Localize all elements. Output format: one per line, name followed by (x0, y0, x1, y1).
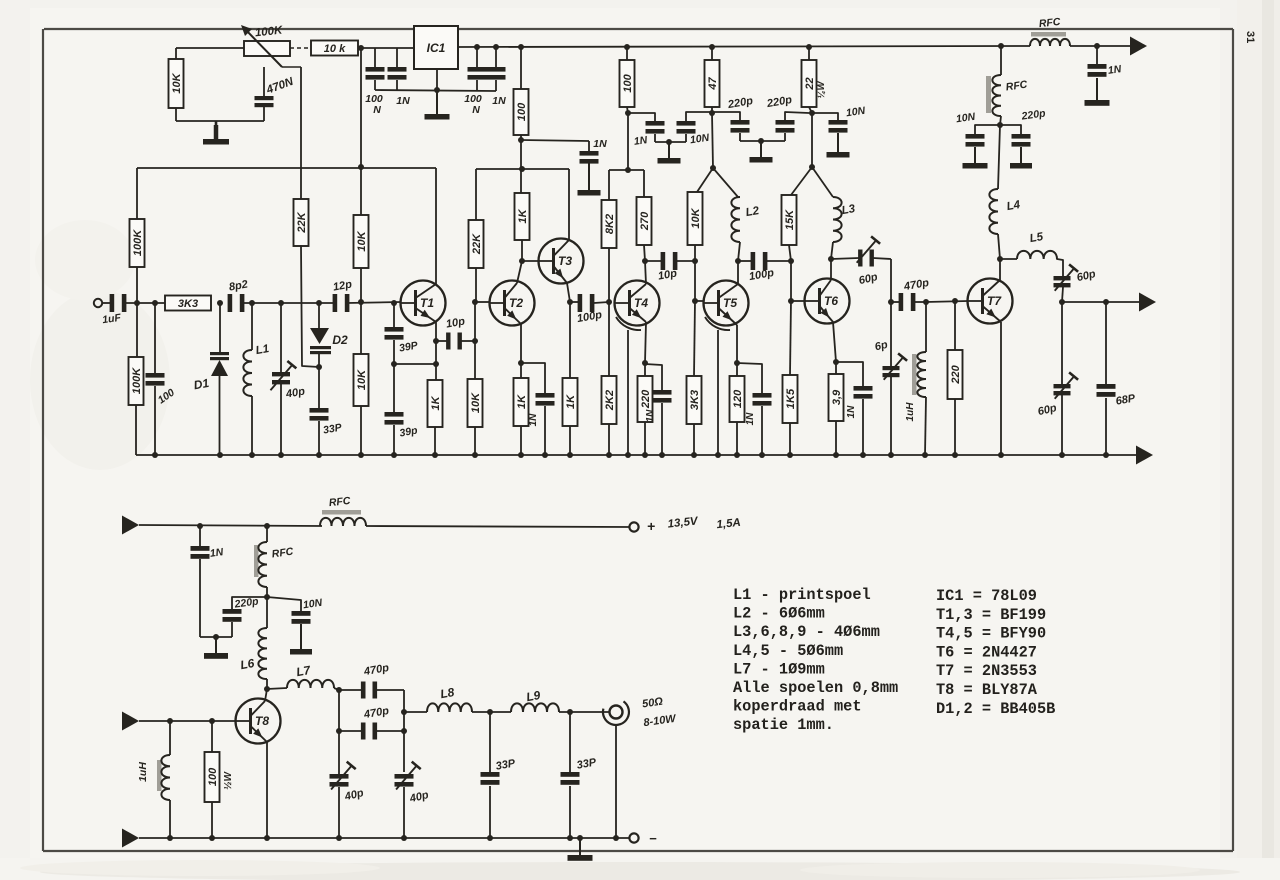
svg-text:L3: L3 (841, 203, 857, 217)
node out a (1059, 299, 1065, 305)
label 1uF (102, 312, 123, 327)
svg-text:100K: 100K (131, 367, 143, 394)
T6 emitter wire (833, 322, 836, 362)
svg-text:1K: 1K (565, 394, 577, 409)
diode D2 varicap (310, 303, 331, 367)
svg-text:T8 = BLY87A: T8 = BLY87A (936, 681, 1038, 699)
svg-text:100: 100 (516, 102, 528, 121)
label 40p (left) (343, 787, 366, 804)
svg-text:koperdraad met: koperdraad met (733, 698, 862, 716)
resistor 15K (782, 167, 813, 261)
T3 collector wire (568, 169, 570, 240)
capacitor 100p (T5 out) (738, 252, 791, 270)
node D2 bottom (316, 364, 322, 370)
wire 60p down (890, 259, 892, 302)
node 100 bottom (518, 137, 524, 143)
wire T2C to T3 base (522, 260, 540, 262)
resistor 10K (T2 base) (468, 341, 483, 455)
IC1 ground pin (375, 69, 496, 91)
resistor 120 (730, 363, 745, 455)
wire x628 down (627, 113, 629, 170)
page number 31 (1244, 31, 1256, 43)
capacitor 100p (T3 out) (570, 294, 609, 312)
svg-text:L4: L4 (1006, 199, 1022, 213)
svg-text:22K: 22K (471, 233, 483, 255)
trimmer 60p (output bottom) (1054, 302, 1079, 455)
node T4 base (606, 299, 612, 305)
node T8 collector (264, 686, 270, 692)
T4 emitter wire (645, 322, 646, 363)
label RFC (vertical) (1005, 79, 1028, 94)
trimmer 60p (T6 out) (831, 236, 891, 266)
ground (IC1) (425, 90, 450, 120)
inductor L7 (267, 680, 339, 690)
ground (1N dec) (578, 163, 601, 196)
capacitor 220p (PA) (223, 597, 268, 637)
label L8 (439, 685, 456, 701)
node IC1 gnd (434, 87, 440, 93)
svg-text:L2 - 6Ø6mm: L2 - 6Ø6mm (733, 605, 825, 623)
label +13,5V (647, 515, 741, 534)
svg-text:1N: 1N (745, 412, 756, 426)
node T6 base (788, 298, 794, 304)
diode D1 varicap (210, 303, 229, 455)
svg-text:T3: T3 (558, 254, 572, 268)
label 60p (out bottom) (1037, 402, 1059, 418)
svg-text:10K: 10K (171, 72, 183, 93)
node rail 1N (1094, 43, 1100, 49)
label 470p (upper) (362, 662, 390, 678)
resistor 3K3 (165, 296, 211, 311)
label L3 (841, 203, 857, 217)
resistor 220 (T7 base) (948, 301, 963, 455)
capacitor 220p (interstage b) (776, 112, 810, 141)
svg-text:L8: L8 (439, 685, 456, 701)
resistor 47 (T5 supply) (705, 44, 720, 113)
wire pot to 10k (290, 47, 311, 49)
label 220p b (765, 94, 793, 110)
capacitor 1N (T6 bypass) (836, 362, 873, 455)
svg-text:1N: 1N (633, 134, 648, 148)
svg-text:1N: 1N (1107, 63, 1122, 77)
svg-text:L2: L2 (745, 205, 761, 219)
node input b (152, 300, 158, 306)
node T2 emitter (518, 360, 524, 366)
node T5 emitter (734, 360, 740, 366)
plus terminal (366, 522, 639, 531)
T5 collector wire (737, 261, 739, 284)
inductor 1uH (T8 base) (157, 721, 170, 838)
svg-text:1N: 1N (209, 546, 224, 560)
svg-text:1N: 1N (593, 138, 607, 150)
trimmer 40p (input) (270, 303, 296, 455)
wire 10k to IC1 (359, 47, 414, 49)
capacitor 33p (D2) (310, 367, 329, 455)
inductor L5 (1000, 251, 1063, 276)
label L6 (239, 656, 256, 672)
T4 case (616, 317, 641, 455)
svg-text:1K: 1K (517, 208, 529, 223)
trimmer 40p (left) (330, 731, 356, 838)
svg-text:1K: 1K (430, 395, 442, 410)
svg-text:N: N (472, 104, 480, 116)
resistor 10K (T1 base up) (354, 215, 369, 302)
resistor 3,9 (829, 362, 844, 455)
label 470p (driver) (902, 277, 930, 293)
label 40p (input) (284, 385, 306, 400)
svg-text:IC1: IC1 (427, 41, 446, 55)
svg-text:8K2: 8K2 (604, 214, 616, 234)
label 60p (T6) (858, 271, 880, 287)
ground bus arrow (1136, 446, 1153, 465)
capacitor 39p (lower) (385, 412, 404, 455)
capacitor 100 (input) (146, 303, 165, 455)
node T2 base (472, 299, 478, 305)
node 470p left (888, 299, 894, 305)
wire 470p right leg (403, 690, 405, 772)
supply rail 9V (458, 46, 1030, 47)
svg-text:−: − (649, 831, 657, 846)
svg-text:22: 22 (804, 77, 816, 90)
resistor 10K (T5 base) (688, 168, 714, 261)
capacitor 1N (T4 bypass) (645, 364, 672, 455)
label 10N (689, 132, 710, 147)
supply line (139, 525, 322, 526)
inductor L9 (511, 703, 559, 712)
svg-text:10K: 10K (356, 369, 368, 390)
capacitor 39p (base) (385, 303, 404, 412)
drive input arrow (122, 712, 139, 731)
node T1e b (433, 361, 439, 367)
lowpass line (404, 711, 427, 713)
resistor 100K (upper bias) (130, 168, 145, 303)
svg-text:1N: 1N (492, 95, 506, 107)
svg-text:T4: T4 (634, 296, 648, 310)
svg-text:1N: 1N (528, 413, 539, 427)
svg-text:L1: L1 (255, 343, 270, 357)
wire to T5 base (695, 300, 704, 302)
node T2 base lower (472, 338, 478, 344)
T1 emitter wire (435, 322, 437, 380)
IC1 78L09 (414, 26, 458, 69)
output arrow (1139, 293, 1156, 312)
label D2 (332, 333, 348, 347)
capacitor 470N (255, 67, 274, 121)
svg-text:120: 120 (732, 389, 744, 408)
ground (bias divider) (203, 121, 229, 145)
capacitor 220p (interstage a) (712, 112, 750, 141)
input terminal (94, 299, 111, 307)
label 1/2W (223, 771, 234, 790)
svg-text:1K5: 1K5 (785, 388, 797, 409)
node RFC supply (264, 523, 270, 529)
svg-text:T2: T2 (509, 296, 523, 310)
node T1 base (358, 299, 364, 305)
svg-text:L4,5 - 5Ø6mm: L4,5 - 5Ø6mm (733, 642, 843, 660)
capacitor 12p (333, 294, 350, 312)
transistor T4 (615, 281, 660, 326)
capacitor 10N (T4 dec) (677, 112, 713, 142)
node 1N supply (197, 523, 203, 529)
capacitor 1N (rail) (1088, 46, 1107, 77)
node PA supply (264, 594, 270, 600)
output line (1062, 301, 1139, 303)
svg-text:10K: 10K (690, 207, 702, 228)
svg-text:220: 220 (640, 389, 652, 409)
capacitor 1uF (110, 294, 127, 312)
node 47 bottom (709, 110, 715, 116)
svg-text:3K3: 3K3 (689, 390, 701, 410)
label 100N 1N (right) (464, 93, 506, 116)
capacitor 100N (IC1 out) (468, 48, 487, 91)
resistor 1K5 (783, 301, 798, 455)
node C (625, 167, 631, 173)
RFC horizontal (supply) (320, 510, 366, 526)
supply arrow (1130, 37, 1147, 56)
capacitor 10N (T6 dec) (812, 113, 848, 133)
wire L8-L9 (472, 711, 511, 713)
svg-text:D2: D2 (332, 333, 348, 347)
label 40p (right) (408, 789, 431, 806)
T7 emitter wire (1000, 322, 1002, 455)
capacitor 10N (F left) (966, 125, 1001, 147)
capacitor 100N (IC1 in) (366, 48, 385, 90)
resistor 2K2 (602, 302, 617, 455)
node T6 base upper (788, 258, 794, 264)
node T5 collector (735, 258, 741, 264)
node input a (134, 300, 140, 306)
transistor T5 (704, 281, 749, 326)
svg-text:+: + (647, 518, 655, 534)
svg-text:1uH: 1uH (137, 762, 149, 782)
resistor 10K (T1 base down) (354, 302, 369, 455)
node T4 emitter (642, 360, 648, 366)
svg-text:1N: 1N (645, 409, 656, 423)
label 12p (332, 278, 353, 293)
ground rail (PA) (122, 829, 630, 848)
capacitor 1N (T5 bypass) (737, 363, 772, 455)
wire to T2 base (475, 301, 490, 303)
minus terminal (629, 831, 657, 846)
svg-text:100K: 100K (132, 229, 144, 256)
label 39P (398, 339, 419, 354)
capacitor 1N (T2 bypass) (521, 363, 555, 455)
resistor 22K (T2 base) (469, 169, 484, 302)
capacitor 33P (L8) (481, 712, 500, 838)
capacitor 220p (F right) (1000, 125, 1031, 147)
node supply gnd (213, 634, 219, 640)
wire to antenna (559, 711, 609, 713)
node D2 (316, 300, 322, 306)
label 68P (1115, 392, 1137, 407)
resistor 100 1/2W (205, 721, 220, 838)
wire to T6 base (791, 300, 806, 302)
node L7 out (336, 687, 342, 693)
bias line A (137, 167, 436, 169)
trimmer 60p (output top) (1054, 264, 1079, 302)
label 220p a (726, 95, 754, 111)
inductor L4 (989, 125, 1000, 259)
svg-text:T1,3 = BF199: T1,3 = BF199 (936, 606, 1046, 624)
node D (710, 165, 716, 171)
svg-text:T8: T8 (255, 714, 269, 728)
label 100 cap (156, 387, 177, 407)
capacitor 10p (T1 out) (436, 333, 475, 350)
inductor L6 (258, 597, 267, 689)
bias line B (476, 168, 569, 170)
RFC vertical (T7 supply) (986, 43, 1004, 125)
svg-text:10K: 10K (470, 392, 482, 413)
resistor 3K3 (T5 base) (687, 301, 702, 455)
label 10N (PA) (302, 597, 323, 612)
resistor 100 (T2/T3 supply) (514, 44, 529, 193)
svg-text:L6: L6 (239, 656, 256, 672)
svg-text:L1 - printspoel: L1 - printspoel (733, 586, 871, 604)
label 10p (T1) (445, 315, 466, 330)
capacitor 10N (PA) (267, 597, 311, 624)
node T5 base (692, 298, 698, 304)
node L1 (249, 300, 255, 306)
node supply B (519, 166, 525, 172)
label RFC (supply) (328, 495, 351, 509)
label 60p (out top) (1076, 268, 1098, 284)
svg-text:100: 100 (622, 73, 634, 92)
svg-text:D1: D1 (193, 376, 211, 393)
wire 39p to emitter (394, 363, 436, 365)
label 33p (D2) (322, 421, 343, 436)
ground (dec T4) (658, 142, 681, 164)
label L2 (745, 205, 761, 219)
svg-text:1uH: 1uH (905, 402, 916, 422)
label 100p (T3) (576, 309, 603, 325)
svg-text:10K: 10K (356, 230, 368, 251)
svg-text:N: N (373, 104, 381, 116)
RFC horizontal (rail) (1030, 32, 1130, 46)
ground (1N rail) (1085, 78, 1110, 106)
parts list coils (733, 586, 898, 734)
capacitor 470p (driver) (891, 293, 926, 311)
svg-text:2K2: 2K2 (604, 390, 616, 411)
label 100N 1N (left) (365, 93, 410, 116)
label 10p (T4) (657, 267, 678, 282)
T6 collector wire (830, 259, 832, 280)
label 8-10W (643, 713, 678, 730)
wire 470p to T7 (926, 301, 968, 302)
inductor L8 (427, 703, 472, 712)
label 1N T6 byp (846, 405, 857, 419)
label 1uH (T8) (137, 762, 149, 782)
ground (220p) (750, 141, 773, 163)
node rail caps (474, 44, 499, 50)
capacitor 68P (1097, 302, 1116, 455)
inductor L2 (713, 168, 740, 261)
wire input node (125, 302, 165, 304)
capacitor 1N (IC1 out) (487, 48, 506, 91)
ground bus (136, 452, 1136, 458)
label 220p (F) (1020, 107, 1047, 122)
resistor 1K (T2 emitter) (514, 378, 529, 455)
capacitor 470p (upper) (339, 682, 404, 699)
node 220 T7 (952, 298, 958, 304)
wire pot bottom row (176, 120, 264, 122)
node F (997, 122, 1003, 128)
svg-text:T1: T1 (420, 296, 434, 310)
capacitor 1N (T2/T3 dec) (580, 151, 599, 164)
label 10N (F) (955, 111, 976, 126)
T7 collector wire (999, 259, 1001, 280)
label RFC (rail) (1038, 16, 1061, 30)
svg-text:T7: T7 (987, 294, 1002, 308)
label 10N b (845, 105, 866, 120)
wire 12p to T1 (347, 302, 401, 303)
potentiometer 100K (241, 25, 301, 67)
svg-text:½W: ½W (223, 771, 234, 790)
resistor 220 (T4 emitter) (638, 363, 653, 455)
node 100 base (209, 718, 215, 724)
svg-text:L5: L5 (1029, 231, 1045, 245)
svg-text:RFC: RFC (328, 495, 351, 509)
trimmer 6p (883, 302, 908, 455)
svg-text:22K: 22K (296, 211, 308, 233)
wire T2 base up (474, 302, 476, 341)
wire T6 base down (790, 261, 792, 301)
node 39p (391, 300, 397, 367)
wire 220p bottoms (740, 140, 785, 142)
resistor 100K (lower) (129, 303, 144, 455)
label L5 (1029, 231, 1045, 245)
parts list semiconductors (936, 587, 1055, 718)
label 1uH (T7) (905, 402, 916, 422)
node bias line (358, 164, 364, 170)
node 100b bottom (625, 110, 631, 116)
ground (10N F) (963, 147, 988, 169)
wire x812 down (811, 113, 813, 167)
transistor T6 (805, 279, 850, 324)
svg-text:L3,6,8,9 - 4Ø6mm: L3,6,8,9 - 4Ø6mm (733, 623, 880, 641)
wire cap bottoms (655, 141, 686, 143)
svg-text:L9: L9 (525, 688, 542, 704)
svg-text:RFC: RFC (1038, 16, 1061, 30)
label 1N T4 byp (645, 409, 656, 423)
svg-text:1K: 1K (516, 394, 528, 409)
resistor 10 k (horizontal) (311, 41, 358, 56)
resistor 22 (T6 supply) (802, 44, 817, 113)
T5 emitter wire (736, 325, 738, 363)
node 470p rl (401, 709, 407, 734)
label 8p2 (228, 278, 249, 293)
resistor 270 (637, 170, 652, 261)
svg-text:T4,5 = BFY90: T4,5 = BFY90 (936, 625, 1046, 643)
label 470p (lower) (362, 705, 390, 721)
ground (10N PA) (290, 624, 312, 655)
node 10k out (358, 45, 364, 51)
inductor L1 (243, 303, 252, 455)
transistor T8 (236, 699, 281, 744)
svg-text:100: 100 (207, 767, 219, 786)
label 100p (T5) (748, 267, 775, 283)
capacitor 1N (supply) (191, 526, 210, 637)
svg-text:270: 270 (639, 211, 651, 231)
wire T5 base down (694, 261, 696, 301)
svg-text:T7 = 2N3553: T7 = 2N3553 (936, 662, 1037, 680)
label L1 (255, 343, 270, 357)
svg-text:IC1 = 78L09: IC1 = 78L09 (936, 587, 1037, 605)
node L9 out (567, 709, 573, 715)
svg-text:15K: 15K (784, 209, 796, 230)
antenna connector (603, 701, 629, 841)
svg-text:T6 = 2N4427: T6 = 2N4427 (936, 643, 1037, 661)
svg-text:Alle spoelen 0,8mm: Alle spoelen 0,8mm (733, 679, 898, 697)
